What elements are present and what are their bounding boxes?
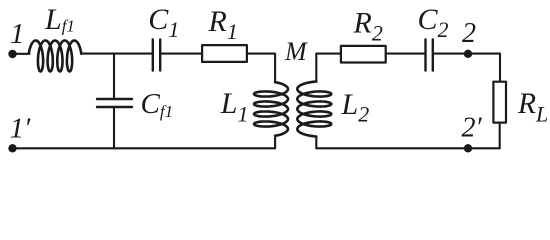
wire (386, 53, 425, 55)
resistor R2 (341, 46, 386, 63)
svg-text:C1: C1 (148, 3, 179, 42)
capacitor C2 (426, 39, 433, 70)
svg-text:R1: R1 (208, 5, 238, 44)
wire (13, 53, 30, 55)
resistor R1 (202, 45, 247, 62)
svg-text:Cf1: Cf1 (141, 88, 174, 121)
capacitor Cf1 (97, 99, 132, 107)
svg-text:1: 1 (10, 18, 25, 50)
svg-text:C2: C2 (418, 3, 449, 42)
inductor Lf1 (29, 41, 82, 72)
wire (161, 53, 202, 55)
wire (274, 136, 276, 149)
wire (316, 147, 499, 149)
wire (247, 54, 275, 83)
resistor RL (493, 82, 506, 123)
capacitor C1 (153, 39, 160, 70)
svg-text:L2: L2 (341, 88, 370, 127)
wire (315, 137, 317, 149)
svg-text:L1: L1 (220, 87, 249, 127)
terminal 1prime (8, 144, 16, 152)
terminal 2prime (464, 144, 472, 152)
wire (13, 147, 276, 149)
wire (434, 54, 500, 81)
terminal 2 (464, 50, 472, 58)
wire (113, 108, 115, 148)
svg-text:2′: 2′ (462, 113, 483, 144)
inductor L1 (254, 82, 288, 136)
svg-text:2: 2 (462, 18, 476, 49)
svg-text:RL: RL (517, 88, 548, 126)
wire (316, 54, 340, 82)
wire (113, 54, 115, 98)
wire (499, 123, 501, 149)
svg-text:M: M (284, 37, 308, 66)
wire (81, 53, 151, 55)
svg-text:R2: R2 (353, 7, 383, 46)
inductor L2 (297, 82, 331, 137)
svg-text:1′: 1′ (10, 113, 32, 145)
svg-text:Lf1: Lf1 (44, 3, 75, 36)
terminal 1 (8, 50, 16, 58)
